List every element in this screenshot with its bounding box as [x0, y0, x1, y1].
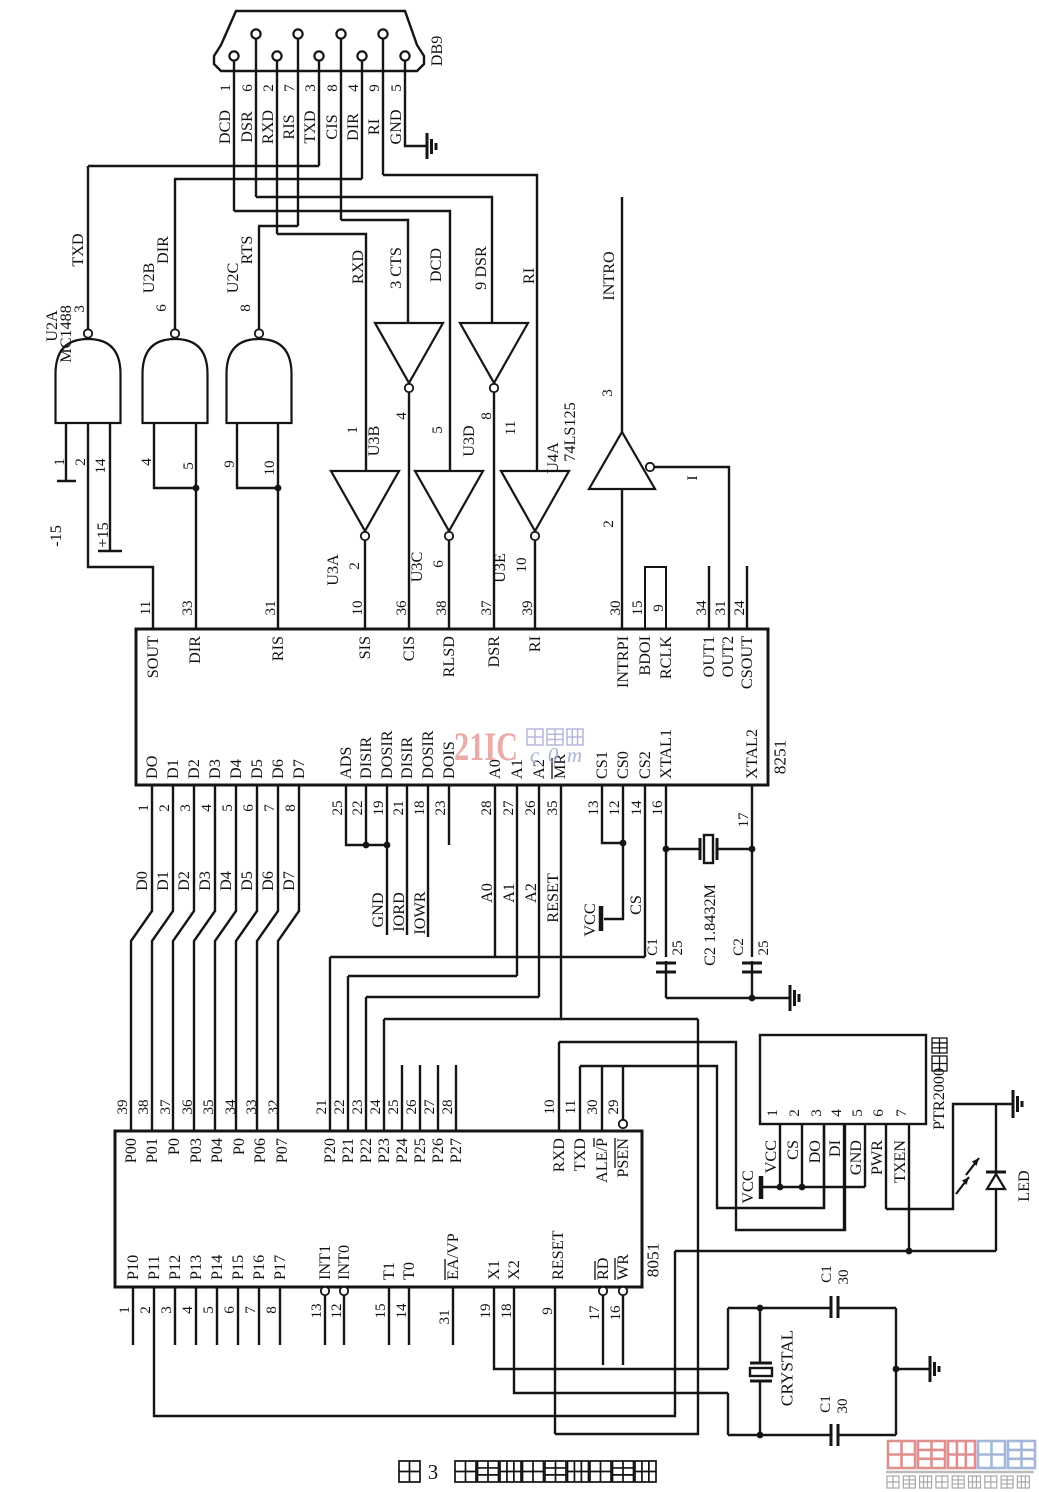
- watermark shepin tagline: [887, 1476, 1029, 1488]
- svg-text:DISIR: DISIR: [357, 737, 375, 779]
- wire data bus D5 (8251 pin 6 to 8051 P05): [236, 785, 257, 1131]
- wire U2C pin 10 to 8251 RIS pin 31: [277, 423, 279, 629]
- svg-text:16: 16: [608, 1305, 624, 1321]
- wire data bus D2 (8251 pin 3 to 8051 P02): [173, 785, 194, 1131]
- inverter U3A: [331, 471, 399, 531]
- wire 8251 OUT1 pin 34 stub: [708, 566, 710, 629]
- svg-text:C2 1.8432M: C2 1.8432M: [701, 884, 719, 966]
- wire 8251 CSOUT pin 24 stub: [746, 566, 748, 629]
- wire 8051 P2 stub at x=456: [455, 1065, 457, 1131]
- wire 8051 P2 stub at x=438: [437, 1065, 439, 1131]
- svg-text:6: 6: [241, 804, 257, 812]
- DB9 pin circle (bottom row 2): [272, 51, 281, 60]
- wire 8051 X1 pin 19 to crystal: [494, 1287, 728, 1369]
- ground symbol at DB9 GND: [426, 133, 429, 159]
- svg-text:3: 3: [303, 84, 319, 92]
- wire 8251 A0 pin 28 down: [494, 785, 496, 957]
- wire RIS vertical from DB9 pin 7: [297, 38, 299, 226]
- wire DCD vertical from DB9 pin 1: [233, 60, 235, 211]
- svg-text:8: 8: [264, 1306, 280, 1314]
- wire 8051 RD stub: [602, 1295, 604, 1365]
- wire crystal lower lead: [759, 1381, 761, 1435]
- wire U3A output pin 2 to 8251 SIS pin 10: [364, 541, 366, 629]
- svg-text:36: 36: [180, 1099, 196, 1115]
- wire data bus D3 (8251 pin 4 to 8051 P03): [194, 785, 215, 1131]
- svg-text:8: 8: [479, 412, 495, 420]
- wire U2B output pin 6 up: [174, 179, 176, 329]
- bubble 8051 INT1 pin 13: [321, 1287, 329, 1295]
- svg-text:22: 22: [350, 800, 366, 815]
- svg-text:P23: P23: [375, 1138, 393, 1163]
- svg-text:RIS: RIS: [280, 114, 298, 139]
- wire net CTS (DB9-8 to U3B in): [341, 220, 408, 323]
- svg-text:5: 5: [220, 804, 236, 812]
- svg-text:D7: D7: [280, 871, 298, 891]
- junction pins 22-19: [384, 842, 391, 849]
- svg-text:RCLK: RCLK: [657, 636, 675, 679]
- wire net A2 bus line: [366, 996, 539, 998]
- svg-text:P01: P01: [143, 1138, 161, 1163]
- svg-text:74LS125: 74LS125: [561, 402, 579, 461]
- svg-text:RESET: RESET: [549, 1230, 567, 1280]
- wire data bus D1 (8251 pin 2 to 8051 P01): [152, 785, 173, 1131]
- wire DIR vertical from DB9 pin 4: [361, 60, 363, 179]
- svg-text:8: 8: [238, 304, 254, 312]
- svg-text:4: 4: [199, 804, 215, 812]
- svg-text:16: 16: [650, 800, 666, 816]
- DB9 pin circle (bottom row 4): [357, 51, 366, 60]
- svg-text:39: 39: [115, 1099, 131, 1114]
- svg-text:3: 3: [428, 1460, 439, 1484]
- gate U2A (MC1488 driver): [56, 339, 121, 423]
- svg-text:25: 25: [330, 800, 346, 815]
- bubble 8051 INT0 pin 12: [340, 1287, 348, 1295]
- svg-text:3: 3: [72, 305, 88, 313]
- svg-text:U2C: U2C: [224, 263, 242, 294]
- wire U2A output pin 3 up: [87, 166, 89, 329]
- wire 8251 XTAL1 pin 16 down: [665, 785, 667, 998]
- svg-text:DIR: DIR: [344, 113, 362, 141]
- svg-text:25: 25: [756, 940, 772, 955]
- svg-text:31: 31: [713, 600, 729, 615]
- wire crystal bottom rail right: [838, 1434, 896, 1436]
- wire crystal right lead: [717, 848, 752, 850]
- wire crystal left rail upper: [727, 1308, 729, 1369]
- svg-text:10: 10: [350, 600, 366, 615]
- wire U3D output pin 8 to 8251 DSR pin 37: [493, 392, 495, 629]
- svg-text:U3D: U3D: [460, 425, 478, 457]
- svg-text:DIR: DIR: [186, 636, 204, 664]
- wire 8051 X2 pin 18 to crystal: [514, 1287, 728, 1393]
- svg-text:3 CTS: 3 CTS: [387, 247, 405, 289]
- wire U2A pin 2 to 8251 SOUT pin 11: [88, 423, 153, 629]
- svg-text:DO: DO: [806, 1140, 824, 1164]
- svg-text:14: 14: [93, 458, 109, 474]
- svg-text:P26: P26: [429, 1138, 447, 1163]
- wire 8251 ADS pin 25 to GND stub: [346, 785, 387, 845]
- bubble 8051 PSEN pin 29: [619, 1120, 627, 1128]
- DB9 pin circle (top row 2): [293, 29, 302, 38]
- svg-text:CSOUT: CSOUT: [738, 636, 756, 689]
- wire crystal left lead: [666, 848, 700, 850]
- svg-text:24: 24: [368, 1099, 384, 1115]
- wire crystal top rail right: [838, 1307, 896, 1309]
- svg-text:D6: D6: [259, 871, 277, 891]
- inverter U3B: [375, 323, 443, 383]
- svg-text:RXD: RXD: [550, 1138, 568, 1172]
- svg-text:2: 2: [73, 458, 89, 466]
- svg-text:DOSIR: DOSIR: [378, 730, 396, 779]
- svg-text:-15: -15: [47, 525, 65, 547]
- wire crystal left rail lower: [727, 1393, 729, 1435]
- svg-text:P0: P0: [230, 1138, 248, 1155]
- wire LED anode down: [995, 1189, 997, 1251]
- svg-text:30: 30: [608, 600, 624, 615]
- svg-text:RD: RD: [594, 1257, 612, 1280]
- svg-text:X1: X1: [485, 1260, 503, 1280]
- svg-text:7: 7: [894, 1109, 910, 1117]
- svg-text:PTR2000: PTR2000: [930, 1068, 948, 1130]
- svg-text:3: 3: [809, 1109, 825, 1117]
- svg-text:1: 1: [52, 458, 68, 466]
- wire 8051 P2 stub at x=420: [419, 1065, 421, 1131]
- svg-text:P16: P16: [250, 1255, 268, 1280]
- svg-text:DOSIR: DOSIR: [419, 730, 437, 779]
- svg-text:A0: A0: [478, 883, 496, 903]
- junction right rail to ground: [893, 1366, 900, 1373]
- svg-text:5: 5: [430, 426, 446, 434]
- svg-text:21: 21: [391, 800, 407, 815]
- wire 8051 P14 stub: [216, 1287, 218, 1345]
- svg-text:9 DSR: 9 DSR: [472, 246, 490, 290]
- DB9 pin circle (bottom row 3): [314, 51, 323, 60]
- svg-text:P27: P27: [447, 1138, 465, 1163]
- svg-text:P06: P06: [251, 1138, 269, 1163]
- svg-text:11: 11: [138, 601, 154, 616]
- svg-text:ALE/P: ALE/P: [593, 1138, 611, 1183]
- bubble 8051 WR pin 16: [619, 1287, 627, 1295]
- wire PTR2000 PWR pin 6 down: [885, 1124, 887, 1209]
- wire net DCD (DB9-1 to U3C in): [234, 211, 450, 471]
- wire net A0/CS bus line: [330, 956, 645, 958]
- svg-text:INTRPI: INTRPI: [614, 636, 632, 688]
- svg-text:RI: RI: [365, 119, 383, 135]
- wire 8251 pin 18 IOWR stub: [427, 785, 429, 937]
- svg-text:19: 19: [371, 800, 387, 815]
- svg-text:8251: 8251: [770, 740, 789, 775]
- svg-text:U2B: U2B: [140, 263, 158, 294]
- wire 8251 VCC pin 13: [602, 785, 623, 843]
- svg-text:P25: P25: [411, 1138, 429, 1163]
- svg-text:5: 5: [389, 84, 405, 92]
- svg-text:12: 12: [607, 800, 623, 815]
- svg-text:PSEN: PSEN: [614, 1138, 632, 1178]
- svg-text:D4: D4: [227, 759, 245, 779]
- svg-text:25: 25: [670, 940, 686, 955]
- svg-text:12: 12: [329, 1303, 345, 1318]
- junction U2C pins 9-10: [275, 485, 282, 492]
- ground symbol (crystal): [929, 1356, 932, 1382]
- wire 8051 T0 stub: [408, 1287, 410, 1345]
- connector J1 DB9 shell: [214, 11, 424, 71]
- svg-text:1: 1: [218, 84, 234, 92]
- svg-text:P13: P13: [187, 1255, 205, 1280]
- svg-text:A2: A2: [522, 883, 540, 903]
- svg-text:D6: D6: [269, 759, 287, 779]
- wire U2A pin 14 leg: [109, 423, 111, 551]
- svg-text:8: 8: [325, 84, 341, 92]
- junction TXEN-rail: [906, 1248, 913, 1255]
- wire 8251 pin 22: [365, 785, 367, 845]
- svg-text:18: 18: [412, 800, 428, 815]
- svg-text:RESET: RESET: [544, 873, 562, 923]
- svg-text:30: 30: [836, 1269, 852, 1284]
- diode LED D1: [986, 1171, 1006, 1174]
- svg-text:DCD: DCD: [216, 110, 234, 144]
- svg-text:TXEN: TXEN: [891, 1140, 909, 1183]
- wire A2 down to 8051 P22 pin 23: [365, 997, 367, 1131]
- wire 8051 TXD pin 11 up: [579, 1066, 581, 1131]
- svg-text:D1: D1: [154, 871, 172, 891]
- svg-text:1: 1: [345, 426, 361, 434]
- junction C2-ground rail: [749, 995, 756, 1002]
- svg-text:TXD: TXD: [69, 233, 87, 267]
- svg-text:DB9: DB9: [428, 36, 446, 67]
- DB9 pin circle (top row 4): [378, 29, 387, 38]
- svg-text:P15: P15: [229, 1255, 247, 1280]
- svg-text:TXD: TXD: [571, 1138, 589, 1172]
- svg-text:4: 4: [394, 412, 410, 420]
- module U6 PTR2000 receiver body: [760, 1035, 926, 1124]
- svg-text:7: 7: [282, 84, 298, 92]
- svg-text:31: 31: [263, 600, 279, 615]
- svg-text:6: 6: [154, 304, 170, 312]
- svg-text:6: 6: [222, 1306, 238, 1314]
- junction XTAL1-crystal: [663, 846, 670, 853]
- svg-text:+15: +15: [94, 522, 112, 547]
- wire PTR2000 TXEN pin 7 down: [908, 1124, 910, 1251]
- svg-text:T1: T1: [380, 1262, 398, 1280]
- svg-text:15: 15: [630, 600, 646, 615]
- wire U2B pin 4 leg: [154, 423, 196, 488]
- svg-text:37: 37: [479, 600, 495, 616]
- wire PTR2000 GND pin 5 down: [864, 1124, 866, 1187]
- wire A1 down to 8051 P21 pin 22: [347, 976, 349, 1131]
- svg-text:c0m: c0m: [530, 743, 582, 767]
- svg-text:4: 4: [346, 84, 362, 92]
- svg-text:U3A: U3A: [324, 554, 342, 586]
- svg-text:SOUT: SOUT: [144, 636, 162, 678]
- junction U2B pins 4-5: [193, 485, 200, 492]
- svg-text:7: 7: [262, 804, 278, 812]
- svg-text:IOWR: IOWR: [411, 891, 429, 934]
- wire crystal upper lead: [759, 1308, 761, 1362]
- DB9 pin circle (top row 1): [251, 29, 260, 38]
- svg-text:10: 10: [514, 557, 530, 572]
- wire 8051 P10 stub: [132, 1287, 134, 1345]
- wire 8051 T1 stub: [388, 1287, 390, 1345]
- svg-text:BDOI: BDOI: [636, 636, 654, 676]
- svg-text:CIS: CIS: [400, 636, 418, 661]
- junction XTAL2-crystal: [749, 846, 756, 853]
- svg-text:17: 17: [587, 1305, 603, 1321]
- wire U3E output pin 10 to 8251 RI pin 39: [534, 541, 536, 629]
- wire 8051 EA stub: [452, 1287, 454, 1345]
- wire 8051 RESET pin 9 down: [554, 1287, 556, 1434]
- svg-text:1: 1: [117, 1306, 133, 1314]
- wire crystal bottom rail left: [728, 1434, 831, 1436]
- wire net TXD-DO (8051 TXD to PTR2000 DO): [580, 1066, 824, 1208]
- wire PTR2000 DI pin 4 down: [843, 1124, 845, 1230]
- wire net RXD (DB9-2 to U3A in): [277, 234, 366, 471]
- wire CIS vertical from DB9 pin 8: [340, 38, 342, 220]
- svg-text:D0: D0: [133, 871, 151, 891]
- buffer U4A (74LS125 tri-state): [589, 432, 655, 489]
- power symbol VCC (PTR2000): [759, 1176, 764, 1199]
- svg-text:U3E: U3E: [491, 553, 509, 583]
- svg-text:D1: D1: [164, 759, 182, 779]
- terminal +15 bar: [98, 550, 122, 553]
- svg-text:D2: D2: [185, 759, 203, 779]
- inverter U3C: [415, 471, 483, 531]
- svg-text:33: 33: [180, 600, 196, 615]
- svg-text:21: 21: [314, 1099, 330, 1114]
- svg-text:13: 13: [586, 800, 602, 815]
- svg-text:P0: P0: [165, 1138, 183, 1155]
- wire net DIR (U2B out to DB9-4): [174, 178, 362, 180]
- svg-text:37: 37: [158, 1099, 174, 1115]
- svg-text:8: 8: [283, 804, 299, 812]
- svg-text:LED: LED: [1015, 1170, 1033, 1202]
- svg-text:35: 35: [201, 1099, 217, 1114]
- svg-text:D5: D5: [248, 759, 266, 779]
- gate U2B (MC1488 driver): [143, 339, 208, 423]
- svg-text:CS: CS: [627, 895, 645, 915]
- junction pins 25-22: [363, 842, 370, 849]
- svg-text:RLSD: RLSD: [440, 636, 458, 678]
- svg-text:DISIR: DISIR: [398, 737, 416, 779]
- watermark dianziwang: [527, 729, 583, 745]
- svg-text:VCC: VCC: [762, 1140, 780, 1173]
- svg-text:9: 9: [367, 84, 383, 92]
- svg-text:36: 36: [394, 600, 410, 616]
- wire 8051 P17 stub: [279, 1287, 281, 1345]
- svg-text:2: 2: [347, 562, 363, 570]
- svg-text:P12: P12: [166, 1255, 184, 1280]
- wire to ground (crystal): [896, 1368, 930, 1370]
- svg-text:VCC: VCC: [739, 1170, 757, 1203]
- svg-text:U4A: U4A: [544, 442, 562, 474]
- svg-text:T0: T0: [400, 1262, 418, 1280]
- svg-text:RXD: RXD: [349, 250, 367, 284]
- svg-text:P21: P21: [339, 1138, 357, 1163]
- wire U4A input pin 2 to 8251 INTRPI pin 30: [621, 489, 623, 629]
- svg-text:39: 39: [520, 600, 536, 615]
- svg-text:XTAL2: XTAL2: [743, 729, 761, 779]
- svg-text:I: I: [685, 475, 701, 480]
- wire 8251 CS pin 14 down: [644, 785, 646, 957]
- junction crystal top: [757, 1305, 764, 1312]
- svg-text:23: 23: [433, 800, 449, 815]
- svg-text:P20: P20: [321, 1138, 339, 1163]
- wire 8051 P15 stub: [237, 1287, 239, 1345]
- wire net RTS (U2C out to DB9-7): [258, 225, 298, 227]
- svg-text:22: 22: [332, 1099, 348, 1114]
- svg-text:29: 29: [606, 1099, 622, 1114]
- wire RI vertical from DB9 pin 9: [382, 38, 384, 175]
- wire crystal ground rail: [666, 997, 790, 999]
- svg-text:27: 27: [422, 1099, 438, 1115]
- svg-text:6: 6: [240, 84, 256, 92]
- svg-text:TXD: TXD: [301, 110, 319, 144]
- wire 8051 P13 stub: [195, 1287, 197, 1345]
- svg-text:C1: C1: [818, 1395, 834, 1413]
- inverter U3E: [501, 471, 569, 531]
- svg-text:6: 6: [871, 1109, 887, 1117]
- svg-text:P04: P04: [208, 1138, 226, 1163]
- wire RESET to 8051 RESET pin 9: [555, 1019, 698, 1434]
- svg-text:P24: P24: [393, 1138, 411, 1163]
- svg-text:OUT2: OUT2: [719, 636, 737, 677]
- svg-text:5: 5: [181, 462, 197, 470]
- wire net RI (DB9-9 to U3E in): [383, 175, 537, 471]
- capacitor C1 25 (on XTAL1): [656, 963, 676, 972]
- svg-text:D2: D2: [175, 871, 193, 891]
- wire 8051 P16 stub: [258, 1287, 260, 1345]
- svg-text:OUT1: OUT1: [700, 636, 718, 677]
- svg-text:24: 24: [732, 600, 748, 616]
- svg-text:MC1488: MC1488: [57, 305, 75, 363]
- svg-text:15: 15: [373, 1303, 389, 1318]
- junction pins 13-12: [620, 840, 627, 847]
- wire U3C output pin 6 to 8251 RLSD pin 38: [448, 541, 450, 629]
- svg-text:GND: GND: [847, 1140, 865, 1175]
- svg-text:XTAL1: XTAL1: [657, 729, 675, 779]
- svg-text:D3: D3: [206, 759, 224, 779]
- wire 8051 ALE pin 30 stub: [601, 1066, 603, 1131]
- wire DSR vertical from DB9 pin 6: [255, 38, 257, 197]
- svg-text:D3: D3: [196, 871, 214, 891]
- caption figure 3 title: [399, 1461, 420, 1482]
- inverter U3D: [460, 323, 528, 383]
- svg-text:CS: CS: [784, 1140, 802, 1160]
- svg-text:GND: GND: [369, 892, 387, 927]
- gate U2C (MC1488 driver): [227, 339, 292, 423]
- svg-text:1: 1: [765, 1109, 781, 1117]
- svg-text:U3B: U3B: [365, 426, 383, 457]
- wire A0 down to 8051 P20 pin 21: [329, 957, 331, 1131]
- crystal Y1 1.8432M: [699, 838, 702, 860]
- wire data bus D6 (8251 pin 7 to 8051 P06): [257, 785, 278, 1131]
- power symbol VCC (8251): [599, 906, 604, 931]
- DB9 pin circle (bottom row 5): [400, 51, 409, 60]
- svg-text:2: 2: [787, 1109, 803, 1117]
- wire 8051 INT0 stub: [343, 1295, 345, 1345]
- svg-text:INT0: INT0: [335, 1245, 353, 1280]
- capacitor C2 25 (on XTAL2): [742, 963, 762, 972]
- svg-text:GND: GND: [387, 109, 405, 144]
- svg-text:DSR: DSR: [238, 111, 256, 143]
- ground symbol (top right): [1012, 1090, 1015, 1118]
- wire 8251 pin 19 GND stub: [386, 785, 388, 935]
- wire net TXEN rail: [675, 1250, 996, 1252]
- svg-text:U3C: U3C: [408, 552, 426, 583]
- svg-text:P17: P17: [271, 1255, 289, 1280]
- svg-text:CIS: CIS: [323, 114, 341, 139]
- svg-text:RIS: RIS: [269, 636, 287, 661]
- wire LED cathode up: [995, 1104, 997, 1172]
- svg-text:9: 9: [222, 460, 238, 468]
